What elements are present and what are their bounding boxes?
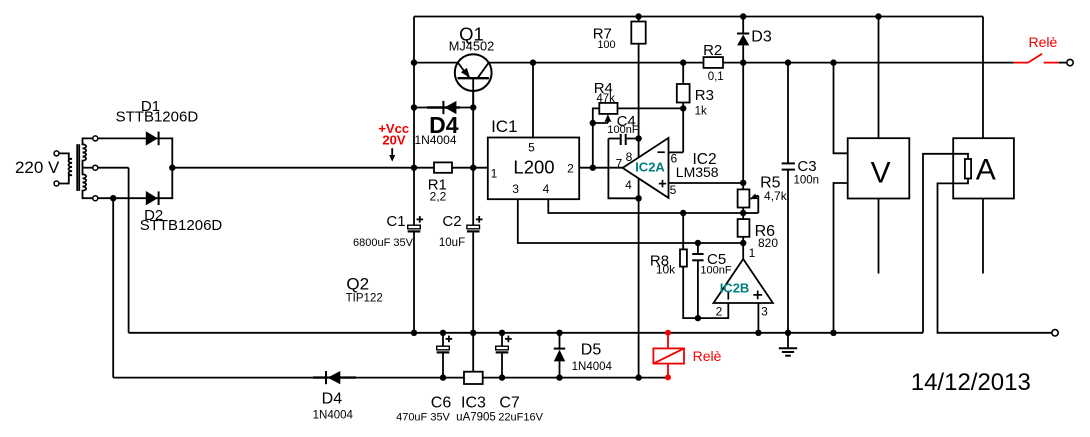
svg-text:C2: C2	[442, 213, 461, 230]
svg-text:C6: C6	[431, 395, 452, 412]
svg-text:IC1: IC1	[491, 117, 517, 136]
svg-text:C7: C7	[499, 395, 520, 412]
svg-text:3: 3	[761, 305, 768, 319]
svg-text:100: 100	[597, 39, 615, 51]
svg-text:4: 4	[543, 182, 550, 196]
svg-text:C3: C3	[797, 158, 816, 175]
svg-text:6: 6	[670, 152, 677, 166]
svg-text:D4: D4	[322, 391, 343, 408]
svg-text:2: 2	[716, 305, 723, 319]
svg-text:uA7905: uA7905	[456, 412, 496, 424]
svg-text:5: 5	[528, 141, 535, 155]
svg-text:D3: D3	[751, 29, 772, 46]
svg-text:MJ4502: MJ4502	[449, 39, 495, 54]
svg-text:6800uF 35V: 6800uF 35V	[353, 237, 414, 249]
svg-text:0,1: 0,1	[708, 71, 724, 83]
svg-text:4,7k: 4,7k	[764, 189, 788, 203]
svg-text:Relè: Relè	[1029, 34, 1058, 50]
svg-text:1N4004: 1N4004	[414, 133, 456, 147]
svg-text:22uF16V: 22uF16V	[498, 412, 543, 424]
svg-text:STTB1206D: STTB1206D	[116, 109, 199, 126]
svg-text:Q2: Q2	[346, 275, 369, 294]
svg-text:C1: C1	[386, 213, 405, 230]
svg-text:4: 4	[625, 178, 632, 192]
svg-text:8: 8	[626, 150, 633, 164]
svg-text:1: 1	[491, 167, 498, 181]
svg-text:IC3: IC3	[461, 395, 486, 412]
svg-text:IC2A: IC2A	[635, 160, 665, 175]
svg-text:D5: D5	[581, 342, 602, 359]
svg-text:LM358: LM358	[676, 164, 719, 180]
svg-text:L200: L200	[513, 157, 554, 178]
svg-text:R2: R2	[703, 42, 722, 59]
svg-text:1k: 1k	[695, 106, 707, 118]
svg-text:820: 820	[758, 236, 778, 250]
svg-text:470uF 35V: 470uF 35V	[396, 412, 450, 424]
svg-text:A: A	[976, 154, 996, 187]
svg-text:10uF: 10uF	[439, 237, 465, 249]
svg-text:1: 1	[749, 246, 756, 260]
svg-text:STTB1206D: STTB1206D	[140, 217, 223, 234]
svg-text:220 V: 220 V	[15, 158, 60, 177]
svg-text:IC2B: IC2B	[720, 281, 750, 296]
svg-text:2,2: 2,2	[430, 190, 447, 204]
svg-text:V: V	[871, 157, 891, 190]
svg-text:14/12/2013: 14/12/2013	[911, 369, 1031, 396]
svg-text:2: 2	[567, 162, 574, 176]
svg-text:3: 3	[512, 182, 519, 196]
svg-text:10k: 10k	[656, 262, 676, 276]
svg-text:100n: 100n	[794, 175, 820, 187]
svg-text:20V: 20V	[382, 133, 405, 148]
svg-text:R3: R3	[695, 87, 714, 104]
svg-text:7: 7	[616, 157, 623, 171]
svg-text:1N4004: 1N4004	[313, 409, 354, 421]
svg-text:100nF: 100nF	[607, 124, 638, 136]
svg-text:1N4004: 1N4004	[572, 361, 613, 373]
svg-text:TIP122: TIP122	[346, 293, 383, 305]
svg-text:Relè: Relè	[693, 348, 722, 364]
svg-text:100nF: 100nF	[700, 264, 731, 276]
svg-text:5: 5	[670, 183, 677, 197]
svg-text:47k: 47k	[596, 93, 615, 105]
